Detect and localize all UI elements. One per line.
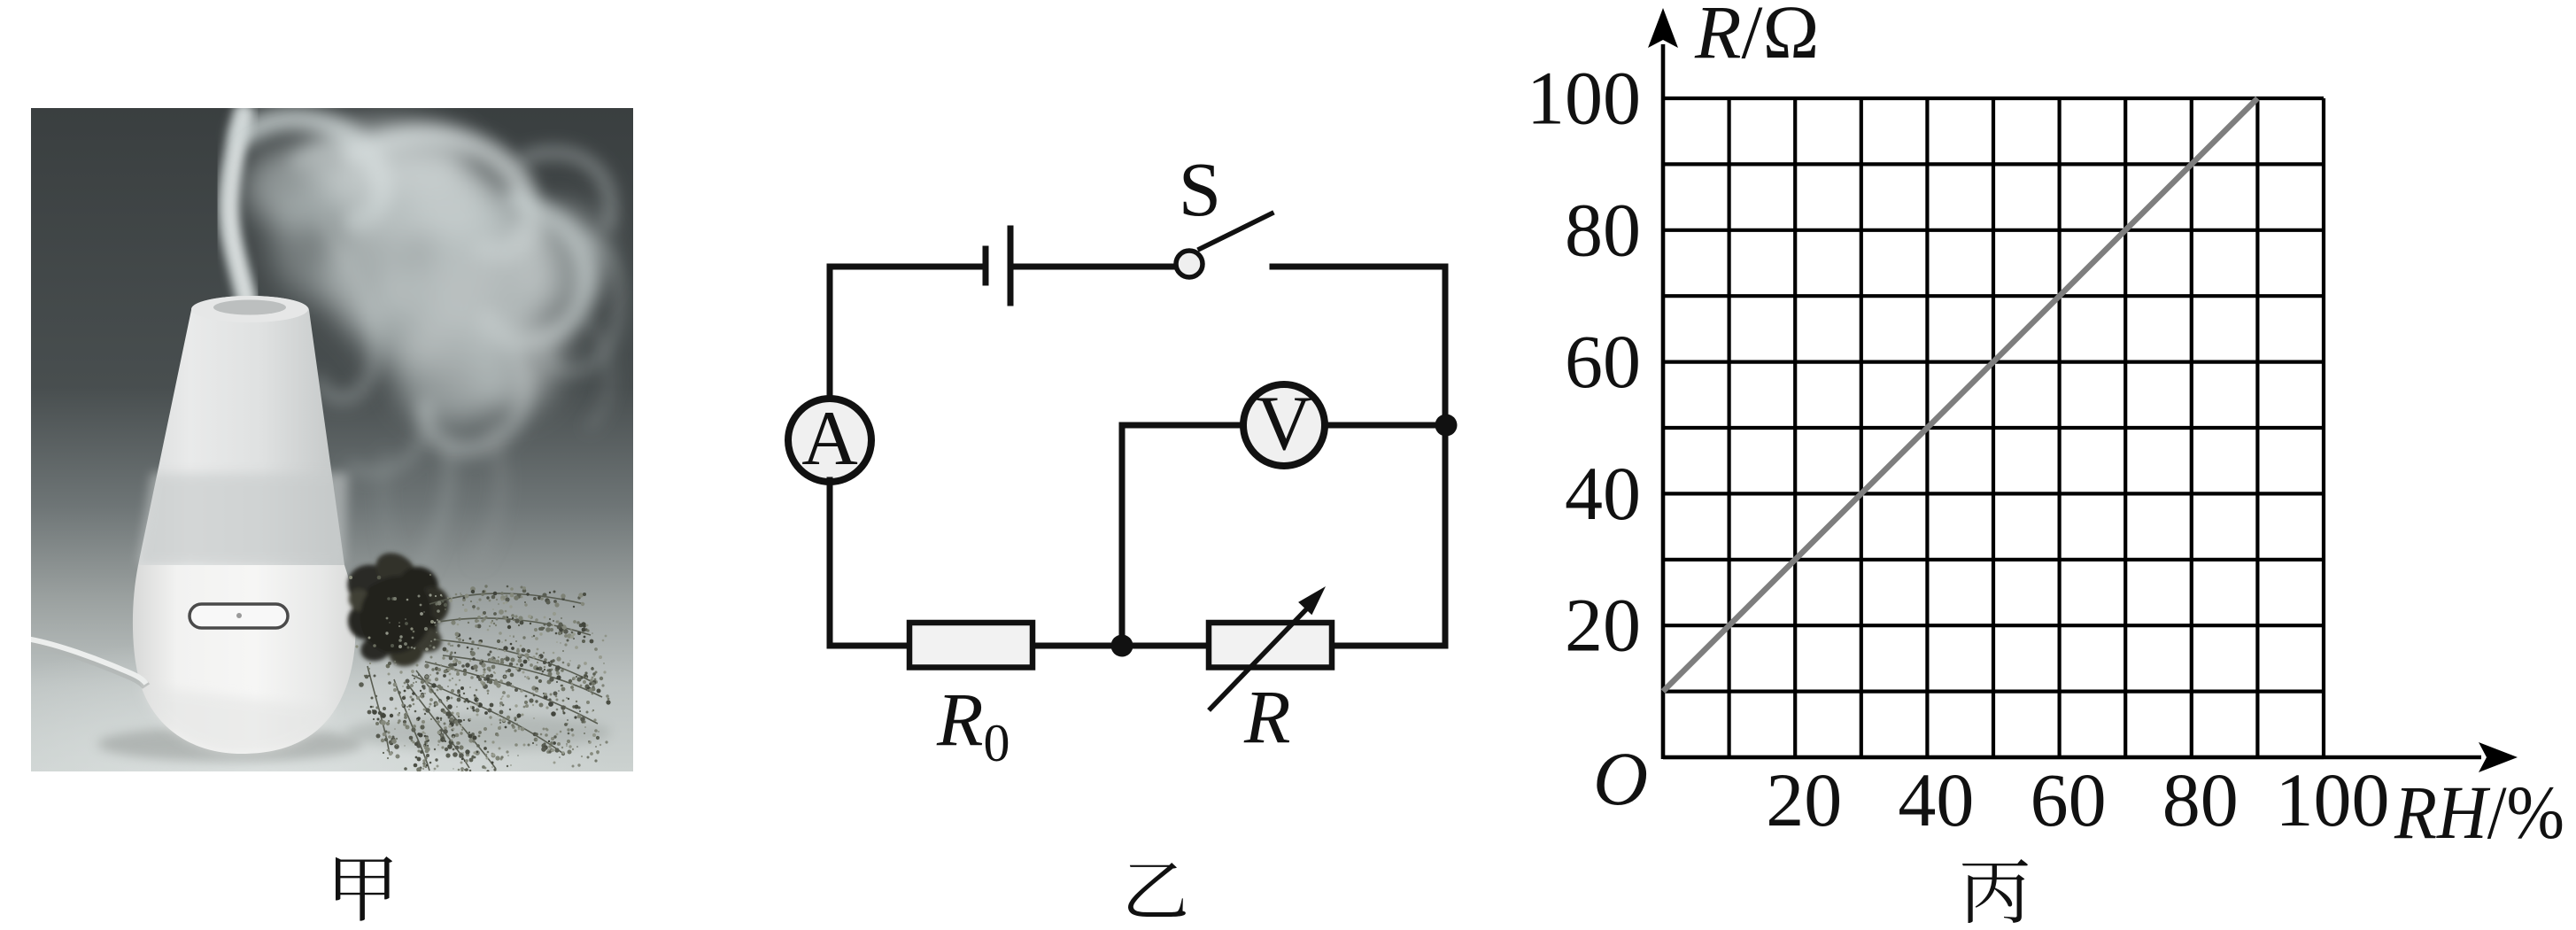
svg-text:40: 40 (1898, 757, 1974, 842)
svg-text:O: O (1593, 736, 1648, 821)
svg-text:R0: R0 (936, 677, 1010, 772)
svg-text:80: 80 (1565, 187, 1641, 272)
svg-text:20: 20 (1565, 583, 1641, 668)
svg-text:20: 20 (1766, 757, 1842, 842)
svg-text:40: 40 (1565, 451, 1641, 536)
svg-text:RH/%: RH/% (2394, 770, 2564, 855)
svg-text:V: V (1256, 381, 1312, 467)
svg-text:100: 100 (2276, 757, 2390, 842)
svg-text:100: 100 (1527, 56, 1641, 141)
svg-text:S: S (1179, 146, 1221, 232)
svg-text:R/Ω: R/Ω (1694, 0, 1819, 74)
svg-text:60: 60 (2031, 757, 2107, 842)
svg-text:R: R (1243, 674, 1291, 759)
svg-text:80: 80 (2162, 757, 2239, 842)
svg-text:A: A (801, 396, 858, 482)
svg-text:60: 60 (1565, 319, 1641, 404)
